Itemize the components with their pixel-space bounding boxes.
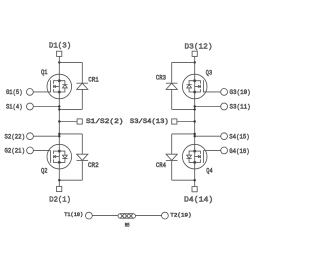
svg-text:D3(12): D3(12) bbox=[185, 43, 213, 51]
terminal G4 bbox=[221, 147, 228, 154]
node CR4 branch junction bbox=[194, 133, 196, 135]
wire CR1 cathode lead bbox=[81, 62, 83, 83]
pad D1 bbox=[57, 51, 62, 56]
terminal T2 bbox=[162, 212, 169, 219]
wire CR2 branch bbox=[59, 133, 82, 135]
wire CR3 cathode lead bbox=[171, 62, 173, 83]
transistor Q4 bbox=[182, 144, 207, 169]
terminal G2 bbox=[27, 147, 34, 154]
wire S3/S4 pad lead bbox=[177, 121, 195, 123]
node S2 junction bbox=[58, 135, 60, 137]
svg-text:S1/S2(2): S1/S2(2) bbox=[86, 118, 124, 125]
wire CR2 return to drain bbox=[59, 179, 82, 181]
wire R5 to T2 bbox=[136, 215, 162, 217]
svg-text:S1(4): S1(4) bbox=[6, 104, 23, 111]
wire CR1 return to source bbox=[59, 108, 82, 110]
transistor Q1 bbox=[47, 74, 72, 99]
node S3 junction bbox=[194, 105, 196, 107]
svg-text:Q4: Q4 bbox=[206, 168, 213, 175]
node D3 junction bbox=[194, 61, 196, 63]
wire left leg main vertical bbox=[58, 56, 60, 186]
terminal G1 bbox=[27, 89, 34, 96]
diode CR3 bbox=[166, 83, 178, 89]
node CR3 return junction bbox=[194, 108, 196, 110]
terminal G3 bbox=[221, 89, 228, 96]
node S3/S4 junction bbox=[194, 120, 196, 122]
svg-text:G1(5): G1(5) bbox=[6, 89, 23, 96]
diode CR1 bbox=[77, 83, 89, 89]
wire G2 gate lead bbox=[33, 149, 50, 151]
pad S1/S2 bbox=[77, 119, 82, 124]
node D4 junction bbox=[194, 179, 196, 181]
svg-text:G4(16): G4(16) bbox=[229, 148, 249, 155]
terminal S3 bbox=[221, 103, 228, 110]
node S1 junction bbox=[58, 105, 60, 107]
svg-text:Q3: Q3 bbox=[206, 70, 213, 77]
svg-text:G3(10): G3(10) bbox=[230, 89, 251, 96]
svg-text:S3/S4(13): S3/S4(13) bbox=[130, 118, 169, 125]
svg-text:G2(21): G2(21) bbox=[5, 148, 26, 155]
terminal S1 bbox=[27, 103, 34, 110]
wire CR4 return to drain bbox=[172, 179, 195, 181]
svg-text:S4(15): S4(15) bbox=[229, 134, 249, 141]
svg-text:Q1: Q1 bbox=[41, 69, 48, 76]
wire CR3 return to source bbox=[172, 108, 195, 110]
wire CR1 anode lead bbox=[81, 89, 83, 109]
svg-text:CR1: CR1 bbox=[88, 77, 99, 84]
svg-text:S3(11): S3(11) bbox=[230, 103, 251, 110]
wire CR4 anode lead bbox=[171, 134, 173, 154]
wire G1 gate lead bbox=[33, 91, 50, 93]
pad S3/S4 bbox=[172, 119, 177, 124]
svg-text:D1(3): D1(3) bbox=[49, 42, 71, 50]
wire G3 gate lead bbox=[203, 91, 220, 93]
svg-text:T2(19): T2(19) bbox=[170, 212, 191, 218]
wire S2 lead bbox=[33, 135, 59, 137]
wire S1/S2 pad lead bbox=[59, 121, 77, 123]
terminal S2 bbox=[27, 133, 34, 140]
svg-text:T1(18): T1(18) bbox=[64, 212, 83, 218]
svg-text:CR4: CR4 bbox=[156, 162, 166, 169]
transistor Q3 bbox=[182, 74, 207, 99]
svg-text:S2(22): S2(22) bbox=[5, 134, 26, 141]
wire D3 to CR3 top bbox=[172, 61, 195, 63]
node S1/S2 junction bbox=[58, 120, 60, 122]
wire CR2 cathode lead bbox=[81, 160, 83, 180]
pad D3 bbox=[192, 51, 197, 56]
wire G4 gate lead bbox=[203, 149, 220, 151]
thermistor R5 body bbox=[118, 214, 136, 219]
transistor Q2 bbox=[47, 144, 72, 169]
wire CR4 cathode lead bbox=[171, 160, 173, 180]
node S4 junction bbox=[194, 135, 196, 137]
node D2 junction bbox=[58, 179, 60, 181]
svg-text:R5: R5 bbox=[125, 222, 130, 228]
pad D4 bbox=[192, 187, 197, 192]
wire S3 lead bbox=[195, 106, 221, 108]
diode CR4 bbox=[166, 154, 178, 160]
svg-text:D2(1): D2(1) bbox=[49, 196, 71, 204]
svg-text:Q2: Q2 bbox=[41, 168, 48, 175]
wire T1 to R5 bbox=[92, 215, 118, 217]
terminal S4 bbox=[221, 133, 228, 140]
svg-text:CR3: CR3 bbox=[156, 75, 166, 82]
wire D1 to CR1 top bbox=[59, 61, 82, 63]
thermistor R5 hatch bbox=[120, 214, 133, 219]
wire right leg main vertical bbox=[194, 56, 196, 186]
wire CR4 branch bbox=[172, 133, 195, 135]
node D1 junction bbox=[58, 61, 60, 63]
wire S1 lead bbox=[33, 106, 59, 108]
svg-text:D4(14): D4(14) bbox=[184, 197, 213, 205]
terminal T1 bbox=[86, 212, 93, 219]
diode CR2 bbox=[77, 154, 89, 160]
wire CR3 anode lead bbox=[171, 89, 173, 109]
svg-text:CR2: CR2 bbox=[88, 162, 99, 169]
wire CR2 anode lead bbox=[81, 134, 83, 154]
node CR2 branch junction bbox=[58, 133, 60, 135]
pad D2 bbox=[57, 186, 62, 191]
wire S4 lead bbox=[195, 135, 221, 137]
node CR1 return junction bbox=[58, 108, 60, 110]
